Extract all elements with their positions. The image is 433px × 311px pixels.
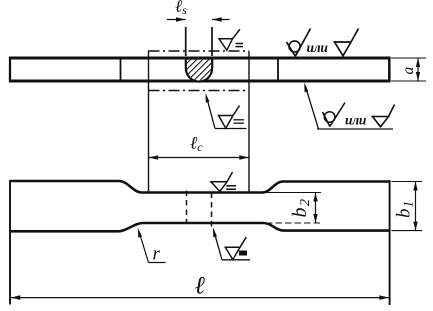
plate division line left bbox=[120, 58, 122, 80]
surface symbol: circle-check on plate top bbox=[287, 29, 311, 57]
leader flag below plate right bbox=[305, 86, 318, 129]
svg-text:r: r bbox=[153, 244, 161, 265]
svg-text:ℓ: ℓ bbox=[195, 273, 206, 300]
specimen right end + l extension bbox=[389, 180, 391, 305]
top plate (side view) top edge bbox=[9, 57, 390, 60]
top plate bottom edge bbox=[9, 80, 390, 83]
dimension l_s extension line left bbox=[185, 27, 187, 56]
svg-text:ℓc: ℓc bbox=[190, 133, 203, 155]
dimension l_s extension line right bbox=[211, 27, 213, 56]
finish symbol on weld axis (leader + triangle + =) bbox=[215, 128, 247, 130]
blank outline left vertical bbox=[148, 51, 150, 193]
dimension l_c line and arrows bbox=[149, 157, 250, 159]
circle-check symbol on flag bbox=[323, 103, 346, 127]
svg-text:b2: b2 bbox=[289, 198, 313, 218]
dimension b2 extension lines bbox=[266, 192, 321, 194]
svg-text:b1: b1 bbox=[394, 200, 416, 218]
svg-text:a: a bbox=[400, 67, 417, 75]
weld axis line (dash-dot) bbox=[149, 90, 250, 92]
top plate right end bbox=[388, 57, 391, 83]
finish symbol on blank top edge (triangle + =) bbox=[219, 29, 240, 50]
svg-text:ℓs: ℓs bbox=[175, 0, 187, 17]
finish symbol on specimen top edge (triangle + =) bbox=[211, 172, 233, 192]
top plate left end bbox=[9, 57, 11, 83]
svg-text:или: или bbox=[307, 40, 329, 55]
specimen outline bottom bbox=[10, 223, 389, 231]
blank outline right vertical bbox=[248, 51, 250, 192]
specimen left end + l extension bbox=[9, 180, 11, 305]
plate division line right bbox=[277, 58, 279, 80]
specimen (plan view) outline top bbox=[10, 181, 389, 193]
svg-text:или: или bbox=[345, 113, 367, 128]
surface symbol: triangle on plate top bbox=[335, 29, 359, 56]
dimension l_s line and arrows bbox=[167, 19, 186, 21]
finish symbol below specimen (leader + triangle + bold =) bbox=[222, 259, 250, 261]
weld seam (hatched) bbox=[186, 59, 212, 82]
blank top edge (dash-dot) bbox=[149, 50, 250, 52]
triangle symbol on flag bbox=[373, 105, 395, 127]
dimension a extension lines bbox=[391, 57, 426, 59]
leader r bbox=[149, 262, 166, 264]
dimension b1 arrows bbox=[415, 182, 417, 231]
weld zone dashed line left bbox=[186, 191, 188, 224]
dimension b1 extension lines bbox=[392, 181, 423, 183]
dimension a arrows bbox=[417, 58, 419, 81]
dimension l line and arrows bbox=[10, 297, 390, 299]
dimension b2 arrows bbox=[315, 193, 317, 224]
weld zone dashed line right bbox=[211, 193, 213, 228]
